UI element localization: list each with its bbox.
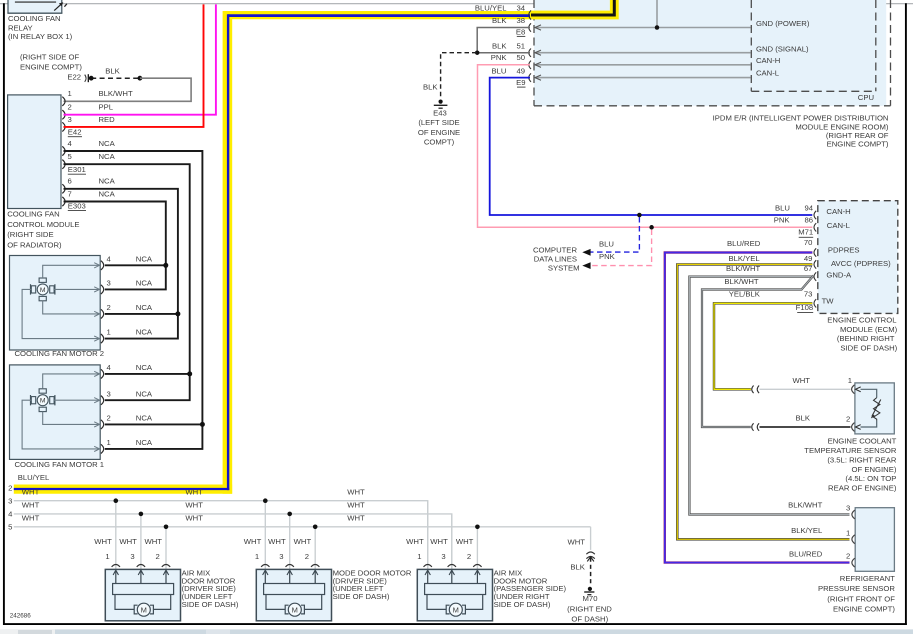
- svg-text:PNK: PNK: [774, 216, 791, 225]
- module pin 5 connector: [62, 160, 65, 169]
- wire NCA fan motor1 pin4: [105, 373, 190, 375]
- wire BLK/WHT module pin1: [64, 78, 192, 101]
- arrow PNK data line: [582, 262, 590, 269]
- wire NCA fan motor2 pin2: [105, 313, 178, 315]
- fan motor 1 pin 2 connector: [101, 420, 104, 429]
- svg-text:NCA: NCA: [136, 303, 153, 312]
- svg-text:ENGINE COOLANT: ENGINE COOLANT: [828, 437, 897, 446]
- svg-text:PRESSURE SENSOR: PRESSURE SENSOR: [818, 584, 895, 593]
- wire YEL/BLK ECM73 to coolant pin1: [714, 303, 812, 389]
- wire BLK to coolant pin2: [760, 426, 851, 428]
- arrow B pin 1: [264, 570, 266, 583]
- svg-text:M71: M71: [798, 228, 813, 237]
- fan motor 2 pin 2 connector: [101, 309, 104, 318]
- svg-text:WHT: WHT: [792, 376, 810, 385]
- svg-text:SIDE OF DASH): SIDE OF DASH): [182, 600, 239, 609]
- wire NCA module pin6 to fan motor2: [64, 189, 178, 339]
- fan motor 1 pin 2 arrow: [94, 422, 99, 427]
- wire GND(SIGNAL) pin51 internal: [535, 52, 751, 54]
- ground M70: [588, 587, 592, 591]
- fan motor 2 pin 3 arrow: [94, 287, 99, 292]
- svg-text:M: M: [292, 605, 298, 614]
- svg-text:WHT: WHT: [347, 513, 365, 522]
- refrigerant sensor box: [855, 508, 894, 572]
- svg-text:5: 5: [68, 152, 72, 161]
- door motor A M symbol: [134, 605, 137, 614]
- ECM pin 86 connector: [814, 223, 816, 231]
- svg-text:GND-A: GND-A: [826, 270, 852, 279]
- svg-text:NCA: NCA: [99, 152, 116, 161]
- wire BLU pin49 to ECM pin94: [490, 78, 813, 215]
- ground E43: [439, 100, 443, 104]
- module pin 6 connector: [62, 184, 65, 193]
- svg-text:E43: E43: [433, 109, 447, 118]
- svg-text:BLU/YEL: BLU/YEL: [18, 473, 50, 482]
- svg-text:COMPT): COMPT): [424, 137, 455, 146]
- wire WHT to M70: [590, 527, 592, 550]
- svg-text:WHT: WHT: [185, 501, 203, 510]
- svg-text:ENGINE COMPT): ENGINE COMPT): [833, 605, 895, 614]
- junction BLK wires: [475, 50, 480, 55]
- junction pin38/vertical: [655, 25, 660, 30]
- svg-text:73: 73: [804, 289, 813, 298]
- svg-text:7: 7: [68, 189, 72, 198]
- svg-text:ENGINE COMPT): ENGINE COMPT): [20, 62, 82, 71]
- fan motor 2 pin 2 arrow: [94, 311, 99, 316]
- svg-text:4: 4: [107, 363, 112, 372]
- svg-text:REAR OF ENGINE): REAR OF ENGINE): [828, 484, 897, 493]
- svg-text:2: 2: [107, 303, 111, 312]
- svg-text:(RIGHT FRONT OF: (RIGHT FRONT OF: [827, 594, 895, 603]
- svg-text:WHT: WHT: [185, 513, 203, 522]
- svg-text:WHT: WHT: [22, 501, 40, 510]
- fan motor 2 pin 4 connector: [101, 261, 104, 270]
- svg-text:BLK: BLK: [492, 41, 507, 50]
- svg-text:5: 5: [8, 523, 12, 532]
- svg-text:WHT: WHT: [22, 513, 40, 522]
- svg-text:E303: E303: [68, 201, 86, 210]
- wire NCA fan motor2 pin4: [105, 264, 166, 266]
- svg-text:E301: E301: [68, 165, 86, 174]
- ECM pin 70 connector: [814, 248, 816, 256]
- wire NCA module pin4 to fan motor1: [64, 151, 203, 449]
- connector arc B pin 2: [311, 565, 319, 567]
- door motor B M symbol: [285, 605, 288, 614]
- wire BLK pin38 to junction: [477, 28, 530, 53]
- svg-text:(RIGHT SIDE: (RIGHT SIDE: [7, 230, 53, 239]
- svg-text:(RIGHT END: (RIGHT END: [567, 604, 612, 613]
- svg-text:M70: M70: [583, 594, 598, 603]
- junction row B pin 3: [287, 512, 292, 517]
- svg-text:COOLING FAN MOTOR 2: COOLING FAN MOTOR 2: [15, 349, 105, 358]
- svg-text:70: 70: [804, 238, 813, 247]
- svg-text:6: 6: [68, 177, 72, 186]
- fan motor 1 pin 4 arrow: [94, 371, 99, 376]
- svg-text:1: 1: [107, 328, 111, 337]
- svg-text:CPU: CPU: [858, 93, 874, 102]
- wire WHT row5: [14, 526, 591, 528]
- coolant pin 2 connector: [852, 423, 855, 432]
- wire PPL: [64, 4, 216, 114]
- svg-text:WHT: WHT: [22, 487, 40, 496]
- svg-text:1: 1: [846, 528, 850, 537]
- svg-text:PNK: PNK: [491, 53, 508, 62]
- svg-text:COOLING FAN MOTOR 1: COOLING FAN MOTOR 1: [15, 460, 105, 469]
- junction row A pin 3: [139, 512, 144, 517]
- wire WHT drop C pin 1: [427, 501, 429, 570]
- svg-text:2: 2: [467, 552, 471, 561]
- junction BLU data line: [637, 213, 642, 218]
- door motor A box: [105, 569, 180, 620]
- fan motor 1 pin 3 connector: [101, 396, 104, 405]
- svg-text:3: 3: [130, 552, 134, 561]
- svg-text:NCA: NCA: [136, 254, 153, 263]
- svg-text:NCA: NCA: [99, 139, 116, 148]
- svg-text:M: M: [141, 605, 147, 614]
- svg-text:1: 1: [107, 438, 111, 447]
- wire NCA module pin7 to fan motor2: [64, 202, 166, 290]
- svg-text:E22: E22: [67, 73, 81, 82]
- module pin 7 connector: [62, 197, 65, 206]
- svg-text:NCA: NCA: [136, 279, 153, 288]
- svg-text:BLK: BLK: [492, 16, 507, 25]
- door motor C box: [417, 569, 492, 620]
- pin 38 connector: [529, 23, 531, 31]
- svg-text:COOLING FAN: COOLING FAN: [8, 14, 61, 23]
- wire BLU/RED ECM70 to refrigerant pin2: [665, 253, 850, 563]
- svg-text:3: 3: [107, 389, 111, 398]
- svg-text:BLK: BLK: [423, 83, 438, 92]
- svg-text:(IN RELAY BOX 1): (IN RELAY BOX 1): [8, 32, 73, 41]
- wire GND(POWER) pin38 internal: [535, 27, 751, 29]
- arrow C pin 2: [476, 570, 478, 583]
- fan motor 2 internal wires: [43, 265, 99, 278]
- wire WHT drop C pin 3: [451, 514, 453, 570]
- ECM pin 49 connector: [814, 260, 816, 268]
- svg-text:BLU/RED: BLU/RED: [727, 239, 761, 248]
- svg-text:E8: E8: [516, 27, 525, 36]
- svg-text:BLK: BLK: [105, 67, 120, 76]
- svg-text:AVCC (PDPRES): AVCC (PDPRES): [831, 259, 891, 268]
- svg-text:1: 1: [255, 552, 259, 561]
- svg-text:2: 2: [8, 484, 12, 493]
- svg-text:WHT: WHT: [456, 537, 474, 546]
- arrow A pin 3: [140, 570, 142, 583]
- svg-text:2: 2: [156, 552, 160, 561]
- IPDM E/R module box: [534, 0, 886, 106]
- module pin 4 connector: [62, 146, 65, 155]
- svg-text:NCA: NCA: [136, 438, 153, 447]
- svg-text:NCA: NCA: [136, 328, 153, 337]
- svg-text:2: 2: [305, 552, 309, 561]
- svg-text:34: 34: [516, 4, 525, 13]
- svg-text:REFRIGERANT: REFRIGERANT: [840, 574, 895, 583]
- svg-text:ENGINE COMPT): ENGINE COMPT): [827, 140, 889, 149]
- wire PNK pin50 to ECM pin86: [478, 65, 813, 228]
- bottom UI strip: [0, 629, 913, 634]
- CPU inner box: [750, 0, 752, 91]
- svg-text:SIDE OF DASH): SIDE OF DASH): [333, 592, 390, 601]
- svg-text:BLK/WHT: BLK/WHT: [726, 264, 760, 273]
- wire BLU/YEL internal (IPDM): [531, 0, 614, 15]
- svg-text:M: M: [40, 287, 46, 294]
- wire BLK/YEL ECM49 to refrigerant pin1: [677, 264, 849, 539]
- connector arc C pin 2: [473, 565, 481, 567]
- connector arc B pin 1: [261, 565, 269, 567]
- svg-text:WHT: WHT: [347, 501, 365, 510]
- svg-text:BLK: BLK: [795, 414, 810, 423]
- svg-text:WHT: WHT: [406, 537, 424, 546]
- svg-text:3: 3: [846, 503, 850, 512]
- ECM pin 73 connector: [814, 299, 816, 307]
- wire WHT drop B pin 2: [314, 527, 316, 570]
- svg-text:50: 50: [516, 53, 525, 62]
- arrow B pin 2: [314, 570, 316, 583]
- svg-text:E9: E9: [516, 78, 525, 87]
- svg-text:1: 1: [105, 552, 109, 561]
- svg-text:CAN-L: CAN-L: [756, 68, 780, 77]
- wire BLK dashed M70: [590, 558, 592, 585]
- svg-text:2: 2: [846, 414, 850, 423]
- wire BLK pin38 drop: [749, 27, 751, 29]
- svg-text:WHT: WHT: [244, 537, 262, 546]
- svg-text:BLU: BLU: [492, 66, 507, 75]
- svg-text:94: 94: [804, 203, 813, 212]
- svg-text:38: 38: [516, 16, 525, 25]
- svg-text:NCA: NCA: [99, 177, 116, 186]
- svg-text:SIDE OF DASH): SIDE OF DASH): [840, 344, 897, 353]
- top frame line: [0, 3, 913, 5]
- fan motor 1 pin 4 connector: [101, 369, 104, 378]
- wire pin38 vertical to top: [656, 0, 658, 28]
- svg-text:67: 67: [804, 264, 813, 273]
- arrow A pin 2: [165, 570, 167, 583]
- svg-text:OF ENGINE: OF ENGINE: [418, 128, 460, 137]
- svg-text:49: 49: [516, 66, 525, 75]
- module pin 1 connector: [62, 97, 65, 106]
- svg-text:1: 1: [848, 376, 852, 385]
- svg-text:WHT: WHT: [567, 537, 585, 546]
- svg-text:CAN-H: CAN-H: [826, 207, 850, 216]
- svg-text:F108: F108: [796, 303, 814, 312]
- fan motor 1 pin 1 connector: [101, 444, 104, 453]
- arrow C pin 3: [451, 570, 453, 583]
- junction PNK data line: [649, 225, 654, 230]
- door motor B lower wires: [266, 595, 285, 610]
- svg-text:(BEHIND RIGHT: (BEHIND RIGHT: [837, 334, 895, 343]
- junction row A pin 2: [164, 525, 169, 530]
- wire WHT drop B pin 3: [289, 514, 291, 570]
- door motor C lower wires: [427, 595, 446, 610]
- fan motor 2 pin 1 arrow: [94, 336, 99, 341]
- fan motor 1 pin 1 arrow: [94, 446, 99, 451]
- svg-text:BLK/YEL: BLK/YEL: [728, 254, 760, 263]
- svg-text:NCA: NCA: [136, 389, 153, 398]
- svg-text:CAN-H: CAN-H: [756, 56, 780, 65]
- wire BLU/YEL main run: [232, 11, 531, 19]
- wire BLK E22 dashed segment: [91, 77, 140, 79]
- wire NCA module pin5 to fan motor1: [64, 164, 190, 400]
- door motor C M symbol: [446, 605, 449, 614]
- svg-text:WHT: WHT: [119, 537, 137, 546]
- junction motor1 pin2: [200, 422, 205, 427]
- svg-text:BLK/WHT: BLK/WHT: [724, 277, 758, 286]
- arrow A pin 1: [115, 570, 117, 583]
- splice BLK coolant pin2: [752, 423, 754, 431]
- wire CAN-L pin49 internal: [535, 77, 751, 79]
- svg-text:3: 3: [107, 279, 111, 288]
- svg-text:OF ENGINE): OF ENGINE): [852, 465, 897, 474]
- door motor B box: [256, 569, 331, 620]
- svg-text:(LEFT SIDE: (LEFT SIDE: [418, 118, 459, 127]
- connector arc A pin 1: [112, 565, 120, 567]
- svg-text:CAN-L: CAN-L: [827, 221, 851, 230]
- svg-text:3: 3: [8, 496, 12, 505]
- svg-text:YEL/BLK: YEL/BLK: [729, 289, 761, 298]
- refrigerant pin 2 connector: [852, 558, 855, 567]
- arrow BLU data line: [582, 249, 590, 256]
- wire WHT row3: [14, 501, 428, 570]
- svg-text:MODULE (ECM): MODULE (ECM): [840, 325, 898, 334]
- svg-text:WHT: WHT: [185, 487, 203, 496]
- coolant sensor box: [855, 383, 894, 434]
- svg-text:4: 4: [107, 254, 112, 263]
- svg-text:4: 4: [68, 139, 73, 148]
- door motor A lower wires: [115, 595, 134, 610]
- svg-text:49: 49: [804, 254, 813, 263]
- junction motor2 pin4: [163, 263, 168, 268]
- svg-text:BLK/WHT: BLK/WHT: [99, 89, 133, 98]
- svg-text:BLK/YEL: BLK/YEL: [791, 526, 823, 535]
- svg-text:GND (POWER): GND (POWER): [756, 19, 810, 28]
- junction dot E22 a: [89, 76, 94, 81]
- arrow B pin 3: [289, 570, 291, 583]
- svg-text:WHT: WHT: [144, 537, 162, 546]
- ECM pin 94 connector: [814, 211, 816, 219]
- thermistor symbol: [861, 389, 877, 397]
- svg-text:WHT: WHT: [430, 537, 448, 546]
- door motor A bar: [113, 584, 174, 595]
- svg-text:4: 4: [8, 510, 13, 519]
- wire NCA fan motor1 pin2: [105, 423, 203, 425]
- svg-text:2: 2: [107, 414, 111, 423]
- wire CAN-H pin50 internal: [535, 64, 751, 66]
- svg-text:PDPRES: PDPRES: [828, 246, 860, 255]
- coolant pin 1 connector: [852, 385, 855, 394]
- svg-text:NCA: NCA: [136, 363, 153, 372]
- svg-text:3: 3: [441, 552, 445, 561]
- fan motor 2 pin 3 connector: [101, 285, 104, 294]
- svg-text:M: M: [453, 605, 459, 614]
- svg-text:M: M: [40, 398, 46, 405]
- fan motor 1 pin 3 arrow: [94, 398, 99, 403]
- svg-text:OF RADIATOR): OF RADIATOR): [7, 240, 62, 249]
- junction row B pin 1: [263, 498, 268, 503]
- svg-text:1: 1: [417, 552, 421, 561]
- svg-text:TEMPERATURE SENSOR: TEMPERATURE SENSOR: [804, 446, 897, 455]
- junction row C pin 2: [475, 525, 480, 530]
- svg-text:DATA LINES: DATA LINES: [534, 254, 577, 263]
- cooling fan relay box: [8, 0, 62, 13]
- refrigerant pin 3 connector: [852, 510, 855, 519]
- svg-text:NCA: NCA: [136, 414, 153, 423]
- cooling fan motor 2 box: [10, 256, 101, 351]
- junction row B pin 2: [313, 525, 318, 530]
- svg-text:PNK: PNK: [599, 252, 616, 261]
- connector arc C pin 3: [448, 565, 456, 567]
- svg-text:BLU/YEL: BLU/YEL: [475, 4, 507, 13]
- door motor C bar: [425, 584, 486, 595]
- svg-text:WHT: WHT: [347, 487, 365, 496]
- wire BLU dashed to computer data lines: [590, 217, 639, 252]
- door motor B bar: [264, 584, 325, 595]
- arrow C pin 1: [427, 570, 429, 583]
- svg-text:COOLING FAN: COOLING FAN: [7, 210, 60, 219]
- wire WHT to coolant pin1: [760, 388, 851, 390]
- splice WHT coolant pin1: [752, 386, 754, 394]
- pin 51 connector: [529, 49, 531, 57]
- junction motor1 pin4: [187, 371, 192, 376]
- junction row A pin 1: [114, 498, 119, 503]
- svg-text:(RIGHT SIDE OF: (RIGHT SIDE OF: [20, 53, 80, 62]
- svg-text:(4.5L: ON TOP: (4.5L: ON TOP: [845, 474, 896, 483]
- svg-text:242686: 242686: [10, 613, 32, 620]
- svg-text:E42: E42: [68, 128, 82, 137]
- ECM box: [818, 201, 898, 314]
- wire WHT drop B pin 1: [264, 501, 266, 570]
- wire WHT drop C pin 2: [476, 527, 478, 570]
- svg-text:OF DASH): OF DASH): [571, 614, 608, 623]
- pin 50 connector: [529, 61, 531, 69]
- module pin 2 connector: [62, 110, 65, 119]
- wire WHT drop A pin 3: [140, 514, 142, 570]
- svg-text:3: 3: [68, 115, 72, 124]
- junction dot E22 b: [138, 76, 143, 81]
- svg-text:BLU: BLU: [599, 239, 614, 248]
- cooling fan control module box: [8, 95, 61, 209]
- cooling fan motor 1 box: [10, 365, 101, 460]
- connector arc B pin 3: [286, 565, 294, 567]
- svg-text:CONTROL MODULE: CONTROL MODULE: [7, 220, 79, 229]
- svg-text:ENGINE CONTROL: ENGINE CONTROL: [827, 316, 897, 325]
- wire WHT row4: [14, 514, 452, 569]
- fan motor 2 motor symbol: [39, 278, 46, 282]
- connector arc A pin 2: [162, 565, 170, 567]
- fan motor 1 internal wires: [43, 374, 99, 389]
- svg-text:BLU/RED: BLU/RED: [789, 549, 823, 558]
- svg-text:3: 3: [279, 552, 283, 561]
- pin 49 connector: [529, 73, 531, 81]
- svg-text:WHT: WHT: [268, 537, 286, 546]
- svg-text:BLK/WHT: BLK/WHT: [788, 501, 822, 510]
- svg-text:(3.5L: RIGHT REAR: (3.5L: RIGHT REAR: [827, 455, 897, 464]
- right page border: [905, 3, 907, 625]
- svg-text:51: 51: [516, 41, 525, 50]
- connector arc C pin 1: [424, 565, 432, 567]
- svg-text:WHT: WHT: [294, 537, 312, 546]
- wire RED: [64, 4, 204, 127]
- svg-text:SIDE OF DASH): SIDE OF DASH): [494, 600, 551, 609]
- svg-text:1: 1: [68, 89, 72, 98]
- fan motor 1 motor symbol: [39, 389, 46, 393]
- wire WHT drop A pin 2: [165, 527, 167, 570]
- connector arc A pin 3: [137, 565, 145, 567]
- wire WHT drop A pin 1: [115, 501, 117, 570]
- svg-text:SYSTEM: SYSTEM: [548, 264, 580, 273]
- wire BLK pin51 solid segment: [477, 52, 530, 54]
- wire BLK/WHT second to coolant pin2: [702, 276, 814, 428]
- svg-text:TW: TW: [822, 296, 835, 305]
